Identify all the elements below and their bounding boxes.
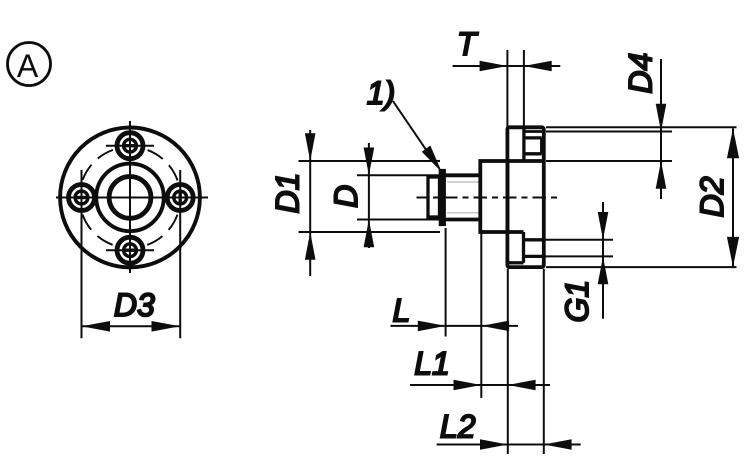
front view horizontal centerline: [56, 197, 208, 199]
stud pilot end: [428, 177, 440, 217]
dimension D2 line: [732, 128, 734, 267]
dimension G1 extension top: [546, 239, 614, 241]
hole bottom outer circle: [117, 237, 143, 263]
front view bolt circle (dashed): [80, 147, 181, 248]
dimension T line: [453, 65, 561, 67]
dimension D2 top arrow: [727, 128, 739, 158]
dimension D2 extension top: [546, 126, 737, 128]
hole top outer circle: [117, 133, 143, 159]
hole bottom slot: [125, 249, 135, 252]
svg-text:L2: L2: [440, 409, 476, 445]
dimension L2 left arrow: [480, 439, 508, 450]
front view center bore circle: [109, 177, 151, 219]
dimension T left arrow: [480, 61, 508, 72]
dimension D4 line: [660, 59, 662, 199]
svg-text:D4: D4: [622, 53, 658, 94]
dimension G1 bottom arrow: [598, 256, 609, 284]
hole right inner circle: [174, 191, 187, 204]
svg-text:D: D: [328, 185, 364, 208]
dimension D2 bottom arrow: [727, 237, 739, 267]
dimension D4 extension bottom: [546, 160, 672, 162]
dimension L line: [390, 325, 518, 327]
thread root line bottom: [447, 212, 480, 214]
svg-text:D2: D2: [694, 176, 730, 217]
view label A circle: [8, 43, 51, 86]
dimension G1 line: [602, 202, 604, 319]
dimension D extension bottom: [357, 219, 446, 221]
dimension D1 top arrow: [305, 133, 316, 161]
hole right outer circle: [167, 185, 193, 211]
top hole lower edge: [524, 152, 542, 155]
bottom hole upper edge: [524, 238, 544, 241]
dimension D1 bottom arrow: [305, 232, 316, 260]
dimension T extension left: [506, 50, 508, 127]
hole right centerline / D3 extension line: [179, 170, 181, 338]
hole top horizontal centerline: [106, 145, 154, 147]
bottom counterbore bottom edge: [509, 261, 524, 264]
dimension D3 right arrow: [152, 321, 181, 332]
dimension L2 right arrow: [544, 439, 572, 450]
dimension D3 left arrow: [82, 321, 111, 332]
hole left centerline / D3 extension line: [81, 170, 83, 338]
dimension L1 left arrow: [454, 380, 482, 391]
thread bottom edge: [444, 218, 481, 222]
dimension D4 bottom arrow: [656, 161, 667, 189]
hole left inner circle: [75, 191, 88, 204]
dimension L2 extension right: [543, 269, 545, 454]
front view collar circle: [96, 164, 164, 232]
note 1 leader arrowhead: [422, 146, 442, 173]
hub bottom edge through flange: [508, 230, 524, 234]
svg-text:L1: L1: [414, 346, 450, 382]
dimension D bottom arrow: [364, 220, 375, 248]
thread root line top: [447, 181, 480, 183]
svg-text:A: A: [17, 48, 39, 84]
dimension L2 line: [437, 444, 581, 446]
top hole end face: [540, 138, 543, 154]
top counterbore top edge: [526, 130, 544, 133]
dimension D1 extension top: [299, 160, 441, 162]
dimension L left arrow: [418, 321, 446, 332]
svg-text:1): 1): [367, 75, 395, 111]
dimension D2 extension bottom: [546, 266, 737, 268]
front view vertical centerline: [129, 121, 131, 273]
dimension L1 right arrow: [508, 380, 536, 391]
dimension D1 extension bottom: [299, 231, 441, 233]
note 1 leader line: [393, 101, 430, 156]
hole bottom horizontal centerline: [106, 249, 154, 251]
thread relief groove (filled): [439, 169, 446, 226]
flange plate back face (top segment): [522, 128, 525, 161]
collar: [480, 161, 507, 232]
dimension D4 top arrow: [656, 104, 667, 132]
hole left outer circle: [69, 185, 95, 211]
flange body: [507, 127, 543, 267]
svg-text:G1: G1: [559, 280, 595, 323]
top hole upper edge: [524, 136, 542, 139]
side view centerline: [417, 197, 559, 199]
thread top edge: [444, 173, 481, 177]
hole top slot: [125, 144, 135, 147]
dimension D line: [368, 143, 370, 248]
bottom hole lower edge: [524, 255, 544, 258]
dimension L right arrow: [481, 321, 509, 332]
hub top edge through flange: [507, 159, 543, 163]
hole left slot: [77, 196, 87, 199]
dimension D extension top: [357, 174, 446, 176]
svg-text:D3: D3: [114, 287, 155, 323]
hole bottom inner circle: [124, 244, 137, 257]
dimension L extension left: [445, 228, 447, 337]
bottom counterbore back face: [522, 232, 525, 263]
dimension G1 extension bottom: [546, 255, 614, 257]
hole right slot (vertical): [179, 193, 182, 203]
hole top inner circle: [124, 139, 137, 152]
dimension D top arrow: [364, 148, 375, 176]
dimension G1 top arrow: [598, 212, 609, 240]
svg-text:L: L: [393, 293, 411, 329]
dimension L / L1 shared extension: [480, 234, 482, 398]
dimension D4 extension top: [546, 131, 672, 133]
svg-text:T: T: [457, 26, 479, 62]
front view outer flange circle: [60, 127, 200, 267]
dimension L1 extension right: [507, 269, 509, 454]
dimension L1 line: [410, 384, 550, 386]
dimension T right arrow: [524, 61, 552, 72]
svg-text:D1: D1: [270, 173, 306, 214]
dimension T extension right: [523, 50, 525, 127]
dimension D3 line: [82, 325, 181, 327]
dimension D1 line: [309, 130, 311, 276]
